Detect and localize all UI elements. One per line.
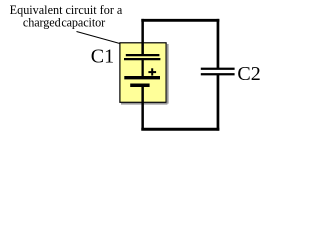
wire: C1 bottom lead <box>141 85 144 130</box>
wire: top horizontal <box>141 19 219 22</box>
callout text "Equivalent circuit for a charged capacitor" <box>10 3 123 30</box>
svg-text:C2: C2 <box>237 63 260 85</box>
svg-text:C1: C1 <box>91 46 114 68</box>
wire: C2 top lead <box>217 19 220 69</box>
capacitor C2 plate 1 <box>201 68 235 70</box>
battery positive plate (long) <box>124 76 160 79</box>
battery polarity plus sign <box>148 68 156 75</box>
capacitor C2 plate 2 <box>201 73 235 75</box>
C1 highlight box (yellow) <box>120 43 169 105</box>
leader line from text to C1 box <box>77 32 120 44</box>
capacitor C1 plate 2 <box>124 58 160 60</box>
battery negative plate (short) <box>130 83 149 87</box>
svg-text:charged capacitor: charged capacitor <box>23 16 105 30</box>
wire: C1 top lead <box>141 19 144 55</box>
capacitor C1 plate 1 <box>126 54 160 56</box>
wire: bottom horizontal <box>141 128 219 131</box>
wire: C1 capacitor to battery <box>141 59 143 77</box>
wire: C2 bottom lead <box>217 74 220 130</box>
